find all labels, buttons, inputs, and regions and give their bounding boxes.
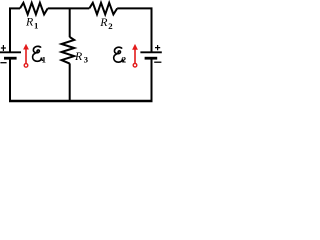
battery E1 minus sign xyxy=(0,62,6,64)
battery E2 long plate (+) xyxy=(140,51,161,53)
svg-text:R: R xyxy=(99,15,108,29)
emf arrow E1 (red, up) xyxy=(23,44,29,68)
emf arrow E2 (red, up) xyxy=(132,44,138,67)
svg-text:1: 1 xyxy=(34,20,38,30)
wire: left edge lower xyxy=(9,58,11,101)
svg-text:R: R xyxy=(74,49,83,63)
battery E2 short plate (-) xyxy=(145,57,158,60)
battery E2 minus sign xyxy=(154,61,161,63)
svg-text:R: R xyxy=(25,15,34,29)
resistor R3 xyxy=(62,37,75,64)
wire: middle branch upper stub xyxy=(69,8,71,38)
resistor R2 xyxy=(89,3,117,15)
wire: top-right segment + right edge upper xyxy=(117,8,151,51)
wire: bottom edge xyxy=(9,100,153,102)
battery E2 plus sign xyxy=(155,45,160,50)
battery E1 plus sign xyxy=(1,45,6,51)
label script-E 1 (emf symbol) xyxy=(33,46,43,61)
label script-E 2 (emf symbol) xyxy=(114,47,124,62)
wire: top-left segment xyxy=(9,7,20,9)
svg-text:3: 3 xyxy=(84,55,89,65)
resistor R1 xyxy=(20,3,48,15)
wire: top middle segment xyxy=(48,7,90,9)
battery E1 short plate (-) xyxy=(4,57,17,60)
wire: middle branch lower stub xyxy=(69,63,71,101)
svg-text:1: 1 xyxy=(42,54,46,64)
svg-text:2: 2 xyxy=(122,55,127,65)
wire: right edge lower xyxy=(151,58,153,101)
battery E1 long plate (+) xyxy=(0,51,21,53)
wire: left edge upper (battery E1 top to top-left corner) xyxy=(9,8,11,51)
svg-text:2: 2 xyxy=(108,21,113,31)
